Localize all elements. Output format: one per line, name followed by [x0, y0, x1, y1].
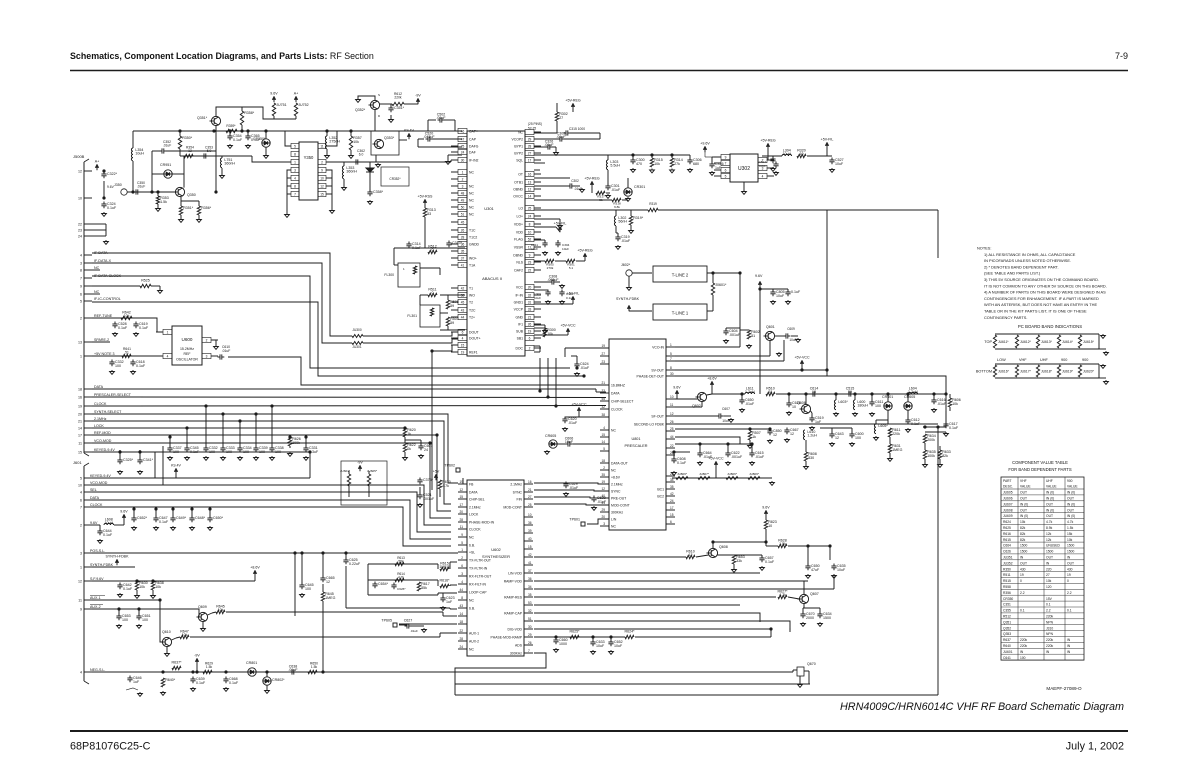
resistor R354 — [184, 154, 193, 157]
svg-text:RAMP-RES: RAMP-RES — [504, 595, 523, 599]
ground — [945, 432, 947, 434]
ground — [727, 461, 729, 463]
svg-text:33k: 33k — [736, 559, 742, 563]
wire — [826, 210, 828, 376]
svg-text:5.9: 5.9 — [207, 149, 212, 153]
ground — [933, 408, 935, 410]
wire — [265, 131, 267, 139]
svg-text:JU614*: JU614* — [1062, 340, 1074, 344]
band row TOP — [995, 333, 1099, 335]
svg-text:1.2nH: 1.2nH — [745, 390, 755, 394]
svg-text:REF: REF — [184, 352, 191, 356]
resistor R608 — [804, 452, 807, 461]
power -9V — [358, 465, 362, 469]
diode CR351 — [164, 170, 172, 178]
wire — [439, 489, 441, 497]
svg-text:0.1uF: 0.1uF — [677, 461, 687, 465]
svg-text:11: 11 — [460, 525, 464, 529]
ground — [105, 240, 107, 242]
resistor R823 — [764, 520, 767, 529]
wire AUX-2 — [92, 608, 199, 610]
svg-text:NC: NC — [469, 198, 474, 202]
ground — [733, 568, 735, 570]
power — [627, 305, 631, 309]
power — [758, 281, 762, 285]
ground — [907, 428, 909, 430]
svg-text:0: 0 — [432, 291, 434, 295]
svg-text:10uH: 10uH — [135, 151, 144, 155]
svg-text:TP601: TP601 — [569, 518, 580, 522]
svg-text:CHIP-SEL: CHIP-SEL — [469, 497, 485, 501]
wire SYNTH-FDBK — [92, 566, 135, 568]
svg-text:17: 17 — [670, 506, 674, 510]
svg-text:0.1uF: 0.1uF — [118, 326, 128, 330]
capacitor C635 — [833, 564, 835, 567]
wire — [740, 329, 749, 331]
jumper JU614* — [1057, 335, 1060, 348]
switch — [126, 688, 138, 690]
svg-text:19: 19 — [78, 404, 82, 408]
svg-text:July 1, 2002: July 1, 2002 — [1066, 741, 1124, 753]
power +5V-REG — [571, 103, 575, 107]
svg-text:2.2: 2.2 — [1020, 591, 1025, 595]
resistor R625* — [570, 635, 579, 638]
wire — [807, 155, 832, 157]
J601 pin 5 — [84, 477, 92, 479]
wire — [576, 356, 578, 364]
ground — [871, 412, 873, 414]
resistor JU604* — [347, 474, 350, 486]
svg-text:6: 6 — [80, 292, 82, 296]
jumper JU300 — [352, 335, 363, 338]
J601 pin 12 — [84, 580, 92, 582]
J500B pin 13 — [84, 341, 92, 343]
svg-text:C649*: C649* — [176, 516, 187, 520]
power +5V-RSS — [423, 199, 427, 203]
wire — [769, 341, 771, 356]
wire — [741, 394, 743, 400]
ground — [805, 465, 807, 467]
ground — [139, 470, 141, 472]
ground — [751, 461, 753, 463]
svg-text:+5V-FIL: +5V-FIL — [567, 291, 580, 295]
J500B pin 15 — [84, 451, 92, 453]
wire — [358, 96, 375, 100]
svg-text:IN (0): IN (0) — [1020, 502, 1028, 506]
ground — [162, 691, 164, 693]
capacitor C317 — [775, 162, 777, 165]
ground — [442, 606, 444, 608]
svg-text:51: 51 — [125, 350, 129, 354]
capacitor C850 — [769, 429, 771, 432]
svg-text:NC: NC — [611, 428, 616, 432]
svg-text:48: 48 — [461, 191, 465, 195]
svg-text:5: 5 — [294, 144, 296, 148]
capacitor C302 — [568, 185, 571, 187]
svg-text:220k: 220k — [1020, 638, 1028, 642]
wire — [712, 156, 720, 158]
svg-text:0: 0 — [1020, 579, 1022, 583]
svg-text:4: 4 — [167, 354, 169, 358]
wire — [801, 366, 803, 370]
wire — [369, 162, 371, 192]
svg-text:14: 14 — [528, 194, 532, 198]
svg-text:VALUE: VALUE — [1046, 484, 1057, 488]
wire SYNC link — [534, 490, 609, 491]
svg-text:8: 8 — [294, 152, 296, 156]
svg-text:NC: NC — [611, 468, 616, 472]
wire IF line y156 — [180, 155, 252, 157]
J500B pin 11 — [84, 442, 92, 444]
wire — [788, 597, 799, 599]
svg-text:27: 27 — [559, 116, 563, 120]
svg-text:10k: 10k — [353, 140, 359, 144]
svg-text:47uF: 47uF — [811, 568, 820, 572]
ground — [833, 574, 835, 576]
svg-text:WITH AN ASTERISK, BUT DOES NOT: WITH AN ASTERISK, BUT DOES NOT HAVE AN E… — [984, 302, 1097, 307]
svg-text:10uH: 10uH — [105, 521, 114, 525]
svg-text:T-LINE 1: T-LINE 1 — [672, 311, 689, 316]
svg-text:10uF: 10uF — [759, 164, 766, 168]
svg-text:R358*: R358* — [244, 111, 255, 115]
ground — [423, 628, 425, 630]
svg-text:PRESCALER-SELECT: PRESCALER-SELECT — [94, 393, 132, 397]
svg-text:100: 100 — [275, 450, 281, 454]
svg-text:23: 23 — [601, 360, 605, 364]
svg-text:1.2uH: 1.2uH — [807, 433, 817, 437]
svg-text:275nH: 275nH — [329, 139, 340, 143]
wire 2.1MHz — [92, 421, 451, 504]
svg-text:42: 42 — [461, 286, 465, 290]
ground — [166, 652, 168, 654]
J601 pin 1 — [84, 566, 92, 568]
svg-text:IN: IN — [1020, 650, 1024, 654]
svg-text:360nH: 360nH — [224, 161, 235, 165]
wire — [767, 149, 769, 160]
svg-text:IF-IN: IF-IN — [515, 293, 523, 297]
svg-text:Q610: Q610 — [162, 630, 171, 634]
svg-text:T2+: T2+ — [469, 315, 475, 319]
svg-text:JU615*: JU615* — [1083, 340, 1095, 344]
svg-text:2: 2 — [80, 523, 82, 527]
svg-text:17: 17 — [459, 503, 463, 507]
wire — [273, 116, 275, 119]
wire SYNTH-SELECT — [92, 414, 458, 483]
jumper JU612* — [1015, 335, 1018, 348]
svg-text:1500: 1500 — [1020, 550, 1028, 554]
svg-text:NC: NC — [469, 170, 474, 174]
resistor R356* — [197, 206, 200, 215]
svg-text:34: 34 — [670, 478, 674, 482]
jumper JU620* — [1078, 365, 1081, 377]
IC U602 — [467, 480, 524, 656]
wire IF-IC-CONTROL — [92, 302, 584, 376]
ground — [247, 144, 249, 146]
svg-text:NC: NC — [469, 184, 474, 188]
svg-text:1.5k: 1.5k — [160, 200, 167, 204]
svg-text:.01uF: .01uF — [410, 629, 418, 633]
resistor R300 — [543, 328, 546, 337]
svg-text:IN: IN — [1067, 650, 1071, 654]
wire PHASE-MOD-RAMP — [534, 636, 570, 638]
J601 pin 6 — [84, 499, 92, 501]
capacitor C618 — [132, 360, 134, 363]
capacitor C648* — [191, 516, 193, 519]
wire — [198, 609, 200, 617]
IC T-LINE 2 — [653, 266, 707, 282]
svg-text:3: 3 — [461, 572, 463, 576]
ground — [205, 456, 207, 458]
wire — [587, 519, 609, 524]
svg-text:J500B: J500B — [73, 154, 85, 159]
svg-text:1uF: 1uF — [715, 166, 722, 170]
svg-text:NC: NC — [518, 130, 523, 134]
svg-text:CR352*: CR352* — [389, 177, 401, 181]
wire — [1099, 348, 1106, 350]
resistor R313 — [423, 208, 426, 217]
wire — [212, 340, 216, 345]
ground — [139, 692, 141, 694]
capacitor C645 — [301, 583, 303, 586]
svg-text:JU612*: JU612* — [1020, 340, 1032, 344]
svg-text:100: 100 — [115, 364, 121, 368]
svg-text:220k: 220k — [1020, 644, 1028, 648]
svg-text:8: 8 — [529, 222, 531, 226]
transistor Q608 — [708, 548, 717, 557]
wire OTB1 — [534, 177, 570, 179]
inductor L353 — [342, 166, 344, 179]
test point TP605 — [393, 623, 397, 627]
IC U600 — [172, 326, 202, 365]
svg-text:IN PICOFARADS UNLESS NOTED OTH: IN PICOFARADS UNLESS NOTED OTHERWISE. — [984, 258, 1071, 263]
svg-text:2: 2 — [529, 346, 531, 350]
svg-text:VHF: VHF — [1019, 358, 1027, 362]
wire box segment — [827, 209, 938, 211]
capacitor C665 — [322, 576, 324, 579]
svg-text:T2C: T2C — [469, 308, 476, 312]
wire — [789, 628, 791, 632]
svg-text:1000: 1000 — [559, 642, 567, 646]
wire — [154, 452, 156, 478]
ground — [447, 160, 449, 162]
IC T-LINE 1 — [653, 304, 707, 320]
svg-text:1500: 1500 — [823, 616, 831, 620]
ground — [172, 526, 174, 528]
wire output line — [326, 161, 451, 163]
capacitor C333 — [222, 446, 224, 449]
svg-text:45: 45 — [461, 220, 465, 224]
svg-text:FL300: FL300 — [384, 273, 394, 277]
svg-text:S.F.9.6V: S.F.9.6V — [90, 577, 104, 581]
ground — [118, 624, 120, 626]
wire — [419, 487, 421, 495]
wire — [723, 415, 731, 417]
wire — [152, 173, 164, 175]
ground — [289, 452, 291, 454]
wire — [222, 414, 224, 448]
wire right riser — [937, 427, 939, 695]
svg-text:VALUE: VALUE — [1067, 484, 1078, 488]
capacitor C646 — [129, 676, 131, 679]
J500B pin 23 — [84, 229, 92, 231]
wire — [534, 146, 548, 148]
svg-text:T2: T2 — [469, 300, 473, 304]
ground — [761, 566, 763, 568]
wire — [444, 119, 455, 121]
svg-text:1: 1 — [403, 267, 405, 271]
svg-text:RX-FILT-IN: RX-FILT-IN — [469, 582, 486, 586]
svg-text:23: 23 — [78, 228, 82, 232]
svg-text:R616: R616 — [1003, 532, 1011, 536]
svg-text:BC2: BC2 — [657, 494, 664, 498]
capacitor C517 — [772, 157, 774, 160]
wire RAMP-CAP — [534, 613, 760, 622]
svg-text:JU608: JU608 — [1003, 508, 1013, 512]
ground — [350, 154, 352, 156]
diode CR802 — [263, 677, 271, 685]
svg-text:SUB: SUB — [516, 329, 524, 333]
svg-text:4.7k: 4.7k — [398, 575, 404, 579]
svg-text:JU809*: JU809* — [749, 472, 760, 476]
inductor L604 — [908, 392, 918, 394]
svg-text:SV-OUT: SV-OUT — [651, 368, 664, 372]
inductor L610 — [803, 430, 805, 440]
ground — [651, 169, 653, 171]
power +8.6V — [253, 570, 257, 574]
power +5V-FIL — [558, 226, 562, 230]
power 9.6V — [675, 390, 679, 394]
svg-text:11: 11 — [78, 441, 82, 445]
wire FIN link — [534, 497, 609, 498]
svg-text:IN: IN — [1067, 638, 1071, 642]
svg-text:6.8k: 6.8k — [614, 205, 620, 209]
ground — [561, 300, 563, 302]
wire — [133, 509, 135, 518]
resistor R611 — [888, 428, 891, 437]
ground — [404, 456, 406, 458]
jumper JU611* — [993, 335, 996, 348]
wire — [343, 162, 345, 166]
svg-text:9.6V: 9.6V — [107, 185, 115, 189]
wire — [675, 360, 784, 362]
wire — [271, 406, 273, 448]
svg-text:2.1MHz: 2.1MHz — [94, 417, 107, 421]
capacitor C642 — [119, 583, 121, 586]
svg-text:CP350*: CP350* — [253, 137, 266, 141]
resistor R627* — [778, 595, 787, 598]
svg-text:VCCP: VCCP — [514, 307, 524, 311]
J500B pin 24 — [84, 235, 92, 237]
resistor R358* — [240, 111, 243, 125]
wire — [803, 607, 820, 609]
ground — [209, 526, 211, 528]
svg-text:.01uF: .01uF — [621, 239, 631, 243]
resistor R638 — [151, 581, 154, 590]
transistor Q601 — [765, 331, 774, 340]
svg-text:IN (0): IN (0) — [1067, 491, 1075, 495]
svg-text:C664: C664 — [1003, 544, 1011, 548]
svg-text:13: 13 — [528, 180, 532, 184]
capacitor C308 — [550, 281, 553, 283]
resistor R357 — [349, 136, 352, 150]
svg-text:2000: 2000 — [806, 616, 814, 620]
svg-text:C355: C355 — [1003, 609, 1011, 613]
svg-text:28: 28 — [459, 518, 463, 522]
svg-text:KEYED-9.4V: KEYED-9.4V — [94, 448, 115, 452]
power +5V-VCC — [714, 461, 718, 465]
capacitor C319 — [617, 235, 619, 238]
svg-text:+8.6V: +8.6V — [250, 565, 260, 569]
svg-text:20: 20 — [528, 285, 532, 289]
svg-text:NC: NC — [469, 598, 474, 602]
wire — [172, 509, 174, 518]
wire NC stub — [92, 269, 100, 271]
svg-text:BOTTOM: BOTTOM — [976, 370, 992, 374]
svg-text:220k: 220k — [394, 96, 402, 100]
wire — [799, 676, 801, 683]
svg-text:OUT: OUT — [1020, 497, 1027, 501]
wire — [447, 295, 449, 300]
svg-text:JU300: JU300 — [352, 328, 361, 332]
svg-text:Q350: Q350 — [187, 193, 196, 197]
capacitor C332 — [205, 446, 207, 449]
svg-text:29: 29 — [528, 137, 532, 141]
resistor R305 — [545, 259, 554, 262]
power K9.4V — [174, 468, 178, 472]
svg-text:IF1: IF1 — [518, 322, 523, 326]
svg-text:UHF: UHF — [1046, 479, 1053, 483]
svg-text:1: 1 — [80, 354, 82, 358]
svg-text:53: 53 — [427, 212, 431, 216]
capacitor C610 — [218, 356, 221, 358]
ground — [593, 506, 595, 508]
svg-text:L/N: L/N — [611, 517, 617, 521]
svg-text:Q351: Q351 — [1003, 620, 1011, 624]
J500B pin 18 — [84, 388, 92, 390]
svg-text:680: 680 — [693, 162, 699, 166]
resistor JU752 — [294, 103, 297, 116]
svg-text:J601: J601 — [73, 460, 82, 465]
wire pin11 — [675, 406, 702, 408]
ground — [305, 456, 307, 458]
power +5V-VCC — [566, 328, 570, 332]
wire AUX-1 — [92, 599, 160, 601]
svg-text:.01uF: .01uF — [937, 402, 947, 406]
resistor R670 — [438, 480, 441, 489]
wire OT line — [534, 162, 545, 164]
ground — [132, 370, 134, 372]
svg-text:0.1: 0.1 — [1020, 609, 1025, 613]
svg-text:R640: R640 — [1003, 644, 1011, 648]
capacitor C628 — [593, 496, 595, 499]
ground — [555, 151, 557, 153]
svg-text:28: 28 — [461, 235, 465, 239]
wire — [807, 546, 809, 566]
svg-text:12k: 12k — [1046, 538, 1052, 542]
svg-text:28: 28 — [459, 637, 463, 641]
svg-text:LOW: LOW — [997, 358, 1006, 362]
capacitor C353 — [202, 155, 205, 157]
wire — [715, 467, 717, 478]
svg-text:CAP: CAP — [469, 137, 477, 141]
svg-text:26: 26 — [670, 420, 674, 424]
svg-text:0k: 0k — [407, 447, 411, 451]
ground — [749, 444, 751, 446]
svg-text:VALUE: VALUE — [1020, 484, 1031, 488]
svg-text:10: 10 — [670, 395, 674, 399]
capacitor C623 — [442, 596, 444, 599]
capacitor C351* — [390, 106, 392, 109]
